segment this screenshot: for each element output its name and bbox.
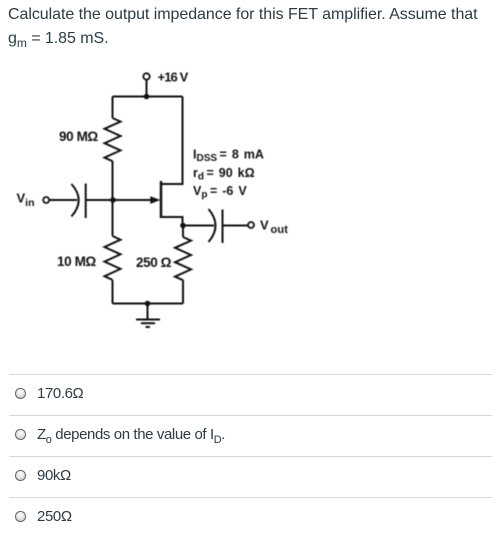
junction dot supply: [144, 94, 150, 100]
resistor 90 Mohm: [59, 118, 121, 161]
supply terminal +16V: [143, 70, 188, 97]
wire source resistor bottom: [182, 280, 184, 304]
svg-text:Vp = -6 V: Vp = -6 V: [193, 184, 247, 201]
node source junction: [180, 223, 186, 229]
option D: [9, 497, 492, 539]
wire gate: [86, 199, 151, 201]
wire to Vout: [223, 225, 249, 227]
resistor 250 ohm: [136, 237, 191, 280]
node gate junction: [110, 197, 116, 203]
capacitor C2 output coupling: [209, 209, 223, 243]
wire Vin to capacitor: [50, 199, 78, 201]
svg-text:90 MΩ: 90 MΩ: [59, 129, 98, 144]
resistor 10 Mohm: [57, 236, 121, 280]
wire source to output cap: [183, 225, 214, 227]
wire drain: [161, 97, 183, 185]
wire bottom rail: [113, 303, 184, 305]
gate arrowhead: [150, 196, 160, 204]
output terminal Vout: [248, 218, 288, 237]
svg-text:IDSS = 8 mA: IDSS = 8 mA: [193, 148, 264, 165]
ground: [136, 304, 160, 328]
FET parameter labels: [193, 148, 264, 201]
option B: [9, 415, 492, 457]
wire source resistor top: [182, 226, 184, 237]
svg-text:+16 V: +16 V: [158, 70, 189, 85]
transistor JFET channel: [160, 181, 163, 218]
svg-text:Vout: Vout: [260, 218, 288, 237]
node ground junction: [145, 301, 151, 307]
wire left branch bottom: [112, 280, 114, 304]
svg-text:rd = 90 kΩ: rd = 90 kΩ: [193, 166, 255, 183]
wire left branch top: [112, 97, 114, 119]
wire source: [161, 217, 183, 226]
svg-text:Vin: Vin: [17, 191, 35, 210]
wire top rail: [113, 96, 183, 98]
option A: [9, 374, 492, 416]
svg-text:10 MΩ: 10 MΩ: [57, 254, 96, 269]
capacitor C1 input coupling: [71, 184, 85, 219]
svg-text:250 Ω: 250 Ω: [136, 255, 172, 270]
input terminal Vin: [17, 191, 50, 210]
option C: [9, 456, 492, 498]
wire left branch middle: [112, 161, 114, 236]
